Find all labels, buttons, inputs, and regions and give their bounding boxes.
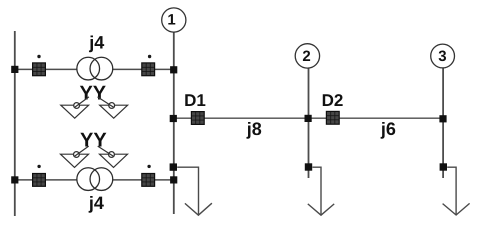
state dot top-right breaker [148, 55, 151, 58]
junction bus1 / line j8 [170, 115, 177, 122]
svg-text:j6: j6 [380, 119, 396, 139]
node circle 1 [162, 8, 186, 32]
svg-text:j8: j8 [246, 119, 262, 139]
load arrow at node 1 [177, 167, 212, 215]
junction bus1 / load tap [170, 163, 177, 170]
earthing terminal circle left (bottom) [74, 152, 80, 158]
wire transformer branch j4 top [15, 68, 174, 70]
busbar node 2 [308, 68, 310, 178]
load arrow at node 2 [308, 167, 334, 215]
svg-text:3: 3 [438, 48, 446, 65]
earthing lead left (top) [75, 97, 89, 107]
svg-text:YY: YY [80, 130, 107, 152]
state dot bottom-left breaker [37, 165, 40, 168]
wire transformer branch j4 bottom [15, 179, 174, 181]
breaker switch top-left [32, 62, 46, 76]
earthing triangle right (top) [100, 105, 128, 118]
wire line j8 / j6 (node 1 to node 3) [174, 117, 444, 119]
transformer T2 (j4 bottom) [77, 168, 113, 191]
earthing terminal circle right (bottom) [109, 152, 115, 158]
earthing lead left (bottom) [75, 146, 89, 156]
earthing terminal circle right (top) [109, 103, 115, 109]
state dot top-left breaker [37, 55, 40, 58]
svg-text:j4: j4 [88, 33, 104, 53]
svg-text:1: 1 [167, 12, 175, 29]
node circle 3 [431, 44, 455, 68]
junction bus1 / T2 [170, 176, 177, 183]
busbar node 3 [442, 68, 444, 178]
node circle 2 [295, 44, 319, 68]
earthing triangle right (bottom) [100, 154, 128, 167]
load arrow at node 3 [443, 167, 470, 215]
breaker switch bottom-left [32, 173, 46, 187]
busbar left (feeder bus) [14, 31, 16, 216]
junction bus1 / T1 [170, 66, 177, 73]
junction bus3 / load tap [440, 163, 447, 170]
junction bus3 / line j6 [439, 115, 446, 122]
junction bus2 / line j8 [305, 115, 312, 122]
svg-text:2: 2 [302, 48, 310, 65]
switch D2 [326, 111, 340, 125]
switch D1 [191, 111, 205, 125]
breaker switch bottom-right [141, 173, 155, 187]
state dot bottom-right breaker [147, 165, 150, 168]
transformer T1 (j4 top) [77, 57, 113, 80]
junction left bus / T1 [11, 66, 18, 73]
svg-text:j4: j4 [88, 193, 104, 213]
svg-text:D1: D1 [184, 91, 206, 110]
breaker switch top-right [141, 62, 155, 76]
earthing terminal circle left (top) [74, 103, 80, 109]
earthing lead right (top) [98, 97, 114, 107]
earthing triangle left (top) [61, 105, 89, 118]
junction left bus / T2 [11, 176, 18, 183]
earthing lead right (bottom) [98, 146, 114, 156]
junction bus2 / load tap [305, 163, 312, 170]
earthing triangle left (bottom) [61, 154, 89, 167]
busbar node 1 [173, 32, 175, 214]
svg-text:D2: D2 [322, 91, 344, 110]
